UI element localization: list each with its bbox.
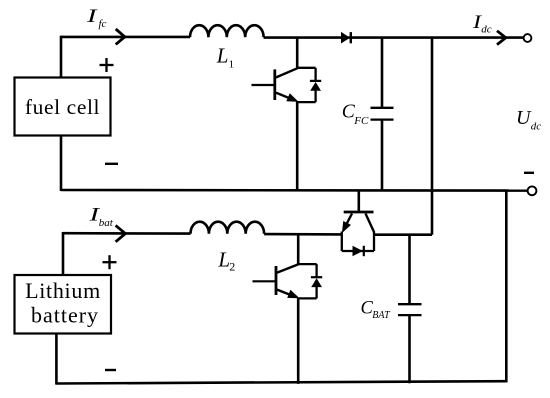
svg-text:battery: battery (31, 303, 99, 328)
wire Q2 collector (297, 233, 300, 264)
svg-text:U: U (516, 107, 532, 129)
wire CFC top lead (381, 37, 384, 108)
wire battery node horizontal (63, 232, 191, 235)
node fuel cell minus sign (105, 163, 118, 165)
svg-text:2: 2 (229, 259, 235, 273)
inductor L1 (190, 25, 264, 37)
wire Q1 emitter to mid rail (296, 102, 299, 191)
wire CBAT bottom lead (408, 315, 411, 383)
node fuel cell plus sign (100, 58, 114, 72)
wire bottom rail (56, 381, 506, 383)
label L2 (217, 247, 235, 273)
svg-text:FC: FC (353, 115, 369, 127)
wire battery positive lead (62, 232, 65, 275)
transistor Q3 (bidirectional upper IGBT, rotated) (342, 212, 374, 251)
wire Q2 emitter to bottom rail (297, 298, 300, 384)
wire top rail (+ bus) (61, 36, 190, 39)
svg-text:fuel cell: fuel cell (25, 95, 100, 119)
wire fuel cell negative lead (60, 136, 63, 192)
label Ifc (85, 6, 106, 30)
svg-text:L: L (216, 43, 229, 67)
diode D2 (Q1 anti-parallel) (297, 68, 321, 102)
node battery plus sign (103, 255, 117, 269)
wire Q1 collector (296, 37, 299, 69)
wire CFC bottom lead (381, 120, 384, 190)
inductor L2 (191, 222, 265, 234)
node output minus sign (524, 172, 534, 174)
wire Q3 gate lead from mid rail (357, 190, 360, 212)
wire right vertical bottom rail to mid rail (505, 190, 508, 382)
diode D1 on top rail (341, 32, 351, 44)
capacitor CBAT (398, 304, 422, 315)
node Idc arrow (497, 31, 506, 45)
wire fuel cell positive lead (60, 36, 63, 78)
svg-text:dc: dc (481, 24, 492, 36)
wire crossing vertical from top rail to battery node (431, 37, 434, 235)
label Idc (472, 12, 492, 36)
lithium battery box (15, 275, 112, 334)
label CBAT (361, 299, 392, 321)
svg-text:BAT: BAT (372, 310, 391, 321)
transistor Q2 (battery boost IGBT) (253, 264, 299, 298)
svg-text:bat: bat (99, 217, 114, 229)
wire battery negative lead (55, 333, 58, 385)
fuel cell box (15, 78, 111, 136)
terminal + output (524, 34, 532, 42)
svg-text:Lithium: Lithium (25, 278, 101, 303)
diode D4 (Q3 anti-parallel) (342, 246, 374, 256)
wire CBAT top lead (408, 234, 411, 304)
svg-text:L: L (217, 247, 230, 271)
node battery minus sign (105, 369, 116, 371)
capacitor CFC (371, 108, 394, 120)
svg-text:1: 1 (229, 59, 235, 71)
terminal - output (528, 186, 537, 195)
transistor Q1 (fuel cell boost IGBT) (252, 68, 298, 101)
label Udc (516, 107, 541, 133)
wire mid rail (- bus) (61, 189, 528, 192)
node Ibat arrow (116, 225, 126, 241)
label CFC (342, 102, 369, 127)
node Ifc arrow (116, 29, 125, 44)
diode D3 (Q2 anti-parallel) (298, 264, 322, 298)
svg-text:fc: fc (99, 18, 107, 30)
label L1 (216, 43, 234, 70)
label Ibat (88, 204, 114, 229)
wire battery node right segment (374, 233, 432, 236)
svg-text:dc: dc (531, 120, 542, 132)
